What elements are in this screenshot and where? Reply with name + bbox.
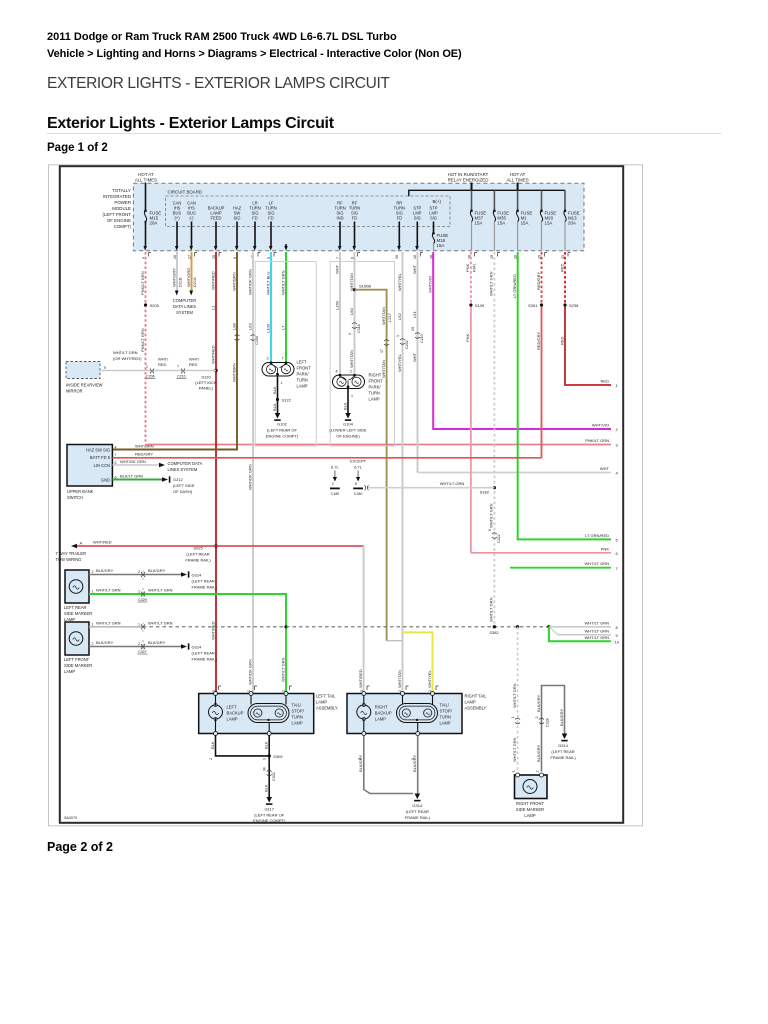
ground G104 [345,413,351,419]
svg-text:INSIDE REARVIEW: INSIDE REARVIEW [66,383,103,388]
svg-text:SYSTEM: SYSTEM [176,310,193,315]
svg-text:TURN: TURN [292,715,303,720]
svg-text:WHT/LT GRN: WHT/LT GRN [584,620,609,625]
svg-text:2: 2 [332,482,334,486]
svg-text:2: 2 [138,570,140,574]
svg-text:RED: RED [601,379,610,384]
header title line 1 [47,31,397,43]
svg-text:WHT/LT GRN: WHT/LT GRN [96,588,121,593]
wire WHT/LT GRN dashed to right marker [517,627,519,772]
trailer tow arrow A [71,544,77,548]
svg-text:WHT/ORG: WHT/ORG [186,268,191,287]
connector C200 on WHT/DK GRN [251,335,256,341]
wire WHT/LT GRN dashed distribution [493,252,495,627]
svg-text:WHT/DK GRN: WHT/DK GRN [247,659,252,685]
header breadcrumb line 2 [47,48,462,60]
svg-text:PNK: PNK [465,263,470,272]
svg-text:FRAME RAIL): FRAME RAIL) [192,657,218,662]
svg-text:HOT IN RUN/START: HOT IN RUN/START [448,172,489,177]
right front side marker lamp [515,775,548,799]
svg-text:15A: 15A [497,221,505,226]
fuse M37 [470,210,486,252]
wire BLK/GRY left rear marker [89,574,181,576]
svg-text:C327: C327 [138,650,147,654]
svg-text:(+): (+) [174,216,180,221]
pin STP LMP SIG 2 [429,206,438,233]
svg-text:1: 1 [351,394,353,398]
svg-text:ENGINE COMPT): ENGINE COMPT) [253,818,286,823]
wire WHT/YEL vertical [402,252,404,694]
wire RED/GRY [541,252,543,305]
pin RF TURN SIG FD [349,201,360,251]
svg-text:LT GRN/RED: LT GRN/RED [512,274,517,298]
svg-text:ALL TIMES: ALL TIMES [135,178,157,183]
svg-text:MODULE: MODULE [112,206,131,211]
wire mirror to S120 [100,370,216,372]
svg-text:3: 3 [263,758,267,760]
svg-text:FRAME RAIL): FRAME RAIL) [550,755,576,760]
svg-text:(LEFT FRONT: (LEFT FRONT [103,212,132,217]
svg-text:FRAME RAIL): FRAME RAIL) [192,585,218,590]
svg-text:PARK/: PARK/ [297,372,310,377]
wire RED/GRY horizontal to switch [112,457,541,459]
node S309 [268,754,271,757]
svg-text:G314: G314 [558,743,569,748]
svg-text:RED: RED [559,263,564,272]
wire BLK/LT GRN GND [112,479,162,481]
svg-text:FD: FD [397,216,403,221]
svg-text:PNK/LT GRN: PNK/LT GRN [140,271,145,295]
svg-text:BATT FD 5: BATT FD 5 [90,455,111,460]
svg-text:WHT/TAN: WHT/TAN [381,307,386,325]
svg-text:M: M [263,768,267,771]
connector C200 on WHT/BRN [235,335,240,341]
svg-text:2: 2 [357,758,361,760]
svg-text:WHT/TAN: WHT/TAN [397,670,402,688]
svg-text:WHT/BRN: WHT/BRN [135,444,154,449]
svg-text:(LEFT REAR OF: (LEFT REAR OF [254,813,284,818]
left front lamp group gray box [255,262,316,447]
svg-text:WHT/YEL: WHT/YEL [397,353,402,372]
pin STP LMP SIG 1 [413,206,422,251]
node S139 [469,303,472,306]
connector C318 on WHT/TAN [352,323,357,329]
ground G212 [162,477,168,481]
svg-text:WHT/RED: WHT/RED [210,271,215,290]
svg-text:4: 4 [336,370,338,374]
svg-text:1: 1 [138,590,140,594]
svg-text:WHT/BRN: WHT/BRN [231,363,236,382]
svg-text:L63: L63 [247,323,252,330]
left tail stop turn lamp [248,692,289,736]
wire WHT/LT GRN terminal 9 [549,627,611,635]
svg-text:RED/GRY: RED/GRY [135,451,153,456]
left front side marker lamp [65,622,89,655]
svg-text:L98: L98 [231,323,236,330]
svg-text:3A4079: 3A4079 [64,816,77,820]
node S238 [563,303,566,306]
wire WHT/LT GRN front [285,244,287,247]
svg-text:6: 6 [488,529,492,531]
svg-text:BLK: BLK [272,403,277,411]
svg-text:HOT AT: HOT AT [138,172,154,177]
wire BLK left tail ground leg [268,736,270,798]
wire WHT/LT GRN terminal 10 [549,627,611,642]
svg-text:FD: FD [352,216,358,221]
svg-text:WHT/DK GRN: WHT/DK GRN [247,464,252,490]
svg-text:LAMP: LAMP [465,700,476,705]
wire WHT (RF IND) [339,252,341,375]
svg-text:20A: 20A [150,221,158,226]
svg-text:(LOWER LEFT SIDE: (LOWER LEFT SIDE [329,428,367,433]
svg-text:WHT/: WHT/ [189,357,200,362]
svg-text:SIDE MARKER: SIDE MARKER [516,807,544,812]
wire BLK left backup ground leg [216,736,270,756]
svg-text:LAMP: LAMP [227,717,238,722]
wire WHT/GRY [176,252,178,291]
node S122 [276,398,279,401]
wire LT GRN/RED [518,252,611,539]
svg-text:G314: G314 [192,573,203,578]
svg-text:RIGHT TAIL: RIGHT TAIL [465,694,488,699]
svg-text:TURN: TURN [440,715,451,720]
svg-text:(-): (-) [189,216,194,221]
svg-text:1: 1 [92,622,94,626]
svg-text:SIG: SIG [233,216,240,221]
svg-text:C302: C302 [272,772,276,781]
svg-text:WHT/VIO: WHT/VIO [428,276,433,293]
wire WHT/VIO [433,252,611,429]
node dash junction 3 [547,625,550,628]
wire bus to fuse M1 [517,190,519,210]
connector C302 on BLK [267,770,272,776]
svg-text:WHT/LT GRN: WHT/LT GRN [584,635,609,640]
svg-text:3: 3 [348,333,352,335]
wire BLK/GRY right marker loop [542,686,565,772]
fuse M1 [516,210,532,252]
svg-text:(LEFT KICK: (LEFT KICK [195,380,217,385]
svg-text:1: 1 [138,622,140,626]
svg-text:7: 7 [115,453,117,457]
inside rearview mirror box [66,362,100,379]
page 2 label [47,840,113,854]
svg-text:LINES SYSTEM: LINES SYSTEM [168,467,198,472]
circuit board inner dashed box [166,196,451,227]
wire WHT/LT GRN terminal 8 [549,626,611,628]
svg-text:S261: S261 [528,303,538,308]
svg-text:FRONT: FRONT [369,379,384,384]
node S382 [493,625,496,628]
svg-text:(LEFT REAR: (LEFT REAR [186,552,209,557]
wire PNK/LT GRN horizontal to terminal 3 [146,444,612,446]
bus bar [409,190,565,196]
svg-text:7 WAY TRAILER: 7 WAY TRAILER [56,551,87,556]
svg-text:6.7L: 6.7L [331,465,340,470]
svg-text:7: 7 [177,365,179,369]
wire WHT/LT GRN to left tail [285,627,287,694]
wire WHT (STP) vertical [417,252,419,473]
svg-text:S182: S182 [480,490,490,495]
svg-text:STOP/: STOP/ [440,709,453,714]
svg-text:C206: C206 [146,375,155,379]
node dash junction 2 [516,625,519,628]
svg-text:WHT/DK GRN: WHT/DK GRN [247,269,252,295]
pin LF TURN SIG FD [265,201,276,251]
svg-text:7: 7 [282,357,284,361]
svg-text:WHT/TAN: WHT/TAN [349,273,354,291]
svg-text:INTEGRATED: INTEGRATED [103,194,131,199]
wire WHT/DK GRN vertical [252,252,254,694]
svg-text:DATA LINES: DATA LINES [173,304,196,309]
svg-text:WHT/LT GRN: WHT/LT GRN [489,503,494,528]
svg-text:RELAY ENERGIZED: RELAY ENERGIZED [448,178,489,183]
svg-text:RED/GRY: RED/GRY [536,272,541,290]
svg-text:SIDE MARKER: SIDE MARKER [64,611,92,616]
svg-text:WHT: WHT [334,264,339,274]
svg-text:PNK/LT GRN: PNK/LT GRN [140,328,145,352]
wire WHT/RED trailer horizontal [77,545,364,547]
svg-text:1: 1 [396,335,400,337]
ground G314 a [181,572,187,576]
svg-text:S382: S382 [489,630,499,635]
svg-text:STOP/: STOP/ [292,709,305,714]
svg-text:PNK/LT GRN: PNK/LT GRN [585,438,609,443]
svg-text:L51: L51 [412,311,417,318]
svg-text:C202: C202 [405,340,409,349]
wire WHT/BRN vertical [112,252,237,450]
connector marks above left tail [219,686,439,690]
node S261 [540,303,543,306]
svg-text:WHT/TAN: WHT/TAN [381,360,386,378]
svg-text:BLK/GRY: BLK/GRY [358,754,363,772]
node S182 [493,486,496,489]
right backup lamp [357,692,371,736]
svg-text:BLK/GRY: BLK/GRY [148,568,166,573]
wire PNK horizontal to terminal 6 [471,552,611,554]
svg-text:WHT/LT GRN: WHT/LT GRN [440,481,465,486]
left backup lamp [209,692,223,736]
pin CAN IHS BUS (-) [187,201,196,251]
svg-text:(LEFT REAR OF: (LEFT REAR OF [267,428,297,433]
svg-text:GND: GND [101,477,110,482]
wire BLK right front lamp [347,389,349,414]
svg-text:LAMP: LAMP [375,717,386,722]
svg-text:HOT AT: HOT AT [510,172,526,177]
svg-text:PANEL): PANEL) [199,386,214,391]
svg-text:UPPER BANK: UPPER BANK [67,489,94,494]
connector C210 [181,369,185,374]
svg-text:C322: C322 [497,534,501,543]
svg-text:FD: FD [252,216,258,221]
section heading underline rule [47,133,721,134]
wire WHT/LT GRN terminal 7 [510,567,611,569]
svg-text:C210: C210 [177,375,186,379]
svg-text:2: 2 [350,370,352,374]
svg-text:CIRCUIT BOARD: CIRCUIT BOARD [168,190,203,195]
svg-text:4: 4 [115,446,117,450]
svg-text:(LEFT SIDE: (LEFT SIDE [173,483,195,488]
svg-text:2: 2 [209,758,213,760]
wire jog WHT/TAN to tail [387,640,403,642]
svg-text:15A: 15A [545,221,553,226]
node S205 [144,303,147,306]
svg-text:WHT/YEL: WHT/YEL [397,272,402,291]
svg-text:LAMP: LAMP [316,700,327,705]
svg-text:TURN: TURN [297,378,308,383]
svg-text:BLK/GRY: BLK/GRY [559,708,564,726]
svg-text:2: 2 [92,570,94,574]
svg-text:WHT/LT GRN: WHT/LT GRN [512,737,517,762]
svg-text:WHT/RED: WHT/RED [358,669,363,688]
svg-text:2: 2 [535,717,539,719]
svg-text:LAMP: LAMP [524,813,535,818]
svg-text:WHT/LT GRN: WHT/LT GRN [512,683,517,708]
svg-text:BLK: BLK [264,784,269,792]
left tail lamp assembly box [199,694,314,734]
node marker green junction [284,625,287,628]
svg-text:LEFT: LEFT [227,705,238,710]
svg-text:G102: G102 [277,422,288,427]
svg-text:2: 2 [536,771,540,773]
wire RED [564,252,566,305]
svg-text:C180: C180 [331,492,340,496]
svg-text:8: 8 [355,482,357,486]
svg-text:LIN CCN: LIN CCN [94,463,110,468]
right tail lamp assembly box [347,694,462,734]
svg-text:L1: L1 [210,305,215,310]
svg-text:L60: L60 [349,308,354,315]
fuse M20 [540,210,556,252]
svg-text:BLK: BLK [272,386,277,394]
svg-text:WHT/LT GRN: WHT/LT GRN [113,350,138,355]
svg-text:SIG: SIG [414,216,421,221]
svg-text:POWER: POWER [114,200,131,205]
svg-text:BLK: BLK [264,741,269,749]
wire bus to fuse M20 [541,190,543,210]
svg-text:EXCEPT: EXCEPT [350,459,367,464]
svg-text:BLK: BLK [210,741,215,749]
pin RF TURN SIG IND [334,201,345,251]
connector C322 on WHT/LT GRN [492,533,497,539]
svg-text:ASSEMBLY: ASSEMBLY [465,706,487,711]
svg-text:A: A [80,541,83,546]
left front park/turn lamp [262,357,294,386]
svg-text:(LEFT REAR: (LEFT REAR [551,749,574,754]
svg-text:BLK/GRY: BLK/GRY [536,744,541,762]
pin BACKUP LAMP FEED [208,206,225,251]
wire WHT horizontal to terminal 4 [418,472,612,474]
svg-text:BLK/GRY: BLK/GRY [148,640,166,645]
svg-text:15A: 15A [475,221,483,226]
svg-text:TAIL/: TAIL/ [292,703,302,708]
svg-text:WHT/RED: WHT/RED [93,540,112,545]
svg-text:S122: S122 [282,398,292,403]
svg-text:RED: RED [189,362,198,367]
svg-text:RED/GRY: RED/GRY [536,332,541,350]
node S025 [214,544,217,547]
svg-text:WHT/LT GRN: WHT/LT GRN [489,597,494,622]
svg-text:MIRROR: MIRROR [66,389,83,394]
page 1 label [47,142,108,154]
wire PNK [470,252,472,305]
svg-text:RED: RED [559,336,564,345]
svg-text:1: 1 [511,717,515,719]
wire bus to fuse M13 [564,190,566,210]
svg-text:L7: L7 [280,325,285,330]
svg-text:OF ENGINE: OF ENGINE [107,218,131,223]
svg-text:15A: 15A [437,243,445,248]
svg-text:LAMP: LAMP [440,721,451,726]
svg-text:PARK/: PARK/ [369,385,382,390]
svg-text:COMPT): COMPT) [114,224,132,229]
svg-text:WHT/VIO: WHT/VIO [592,423,609,428]
svg-text:2: 2 [138,642,140,646]
connector tick marks below module [149,253,571,257]
svg-text:6.7L: 6.7L [354,465,363,470]
svg-text:LAMP: LAMP [297,384,308,389]
fuse M35 [493,210,509,252]
svg-text:L217: L217 [387,312,392,322]
svg-text:B(+): B(+) [433,199,442,204]
svg-text:WHT/TAN: WHT/TAN [349,350,354,368]
svg-text:RED: RED [158,362,167,367]
svg-text:WHT/GRY: WHT/GRY [171,268,176,287]
svg-text:BLK/LT GRN: BLK/LT GRN [120,474,143,479]
pin numbers below module [141,255,565,259]
pin LR TURN SIG FD [249,201,260,251]
svg-text:BLK/GRY: BLK/GRY [96,568,114,573]
svg-text:FEED: FEED [211,216,222,221]
svg-text:PNK: PNK [601,546,610,551]
svg-text:WHT: WHT [412,264,417,274]
svg-text:S238: S238 [569,303,579,308]
svg-text:1: 1 [281,381,283,385]
svg-text:LT GRN/RED: LT GRN/RED [585,533,609,538]
svg-text:D21B: D21B [179,277,183,287]
right front park/turn lamp [333,370,365,399]
svg-text:3: 3 [267,357,269,361]
page heading [47,75,390,93]
left rear side marker lamp [65,570,89,603]
svg-text:S139: S139 [475,303,485,308]
svg-text:WHT/DK GRN: WHT/DK GRN [120,459,146,464]
fuse M18 [432,232,448,251]
wire BLK/GRY right backup ground leg [364,736,413,794]
svg-text:FRONT: FRONT [297,366,312,371]
wire feed hot at all times [517,183,519,191]
svg-text:WHT/RED: WHT/RED [210,621,215,640]
outer gray frame [49,165,643,826]
right front lamp group gray box [330,262,394,447]
svg-text:WHT/LT GRN: WHT/LT GRN [584,628,609,633]
svg-text:10: 10 [615,639,620,644]
svg-text:(LEFT REAR: (LEFT REAR [406,809,429,814]
svg-text:BLK/GRY: BLK/GRY [96,640,114,645]
connector C210 on WHT [415,333,420,339]
svg-text:1: 1 [512,771,516,773]
svg-text:17: 17 [380,349,384,353]
wire WHT/LT GRN left rear marker [89,594,286,627]
svg-text:G314: G314 [192,645,203,650]
svg-text:L62: L62 [397,313,402,320]
svg-text:WHT/LT GRN: WHT/LT GRN [280,270,285,295]
wire BLK/GRY left front marker [89,646,181,648]
wire WHT/TAN front [354,252,356,375]
svg-text:OF DASH): OF DASH) [173,489,193,494]
svg-text:G104: G104 [343,422,354,427]
svg-text:(OR WHT/RED): (OR WHT/RED) [113,356,142,361]
svg-text:BLK: BLK [342,402,347,410]
